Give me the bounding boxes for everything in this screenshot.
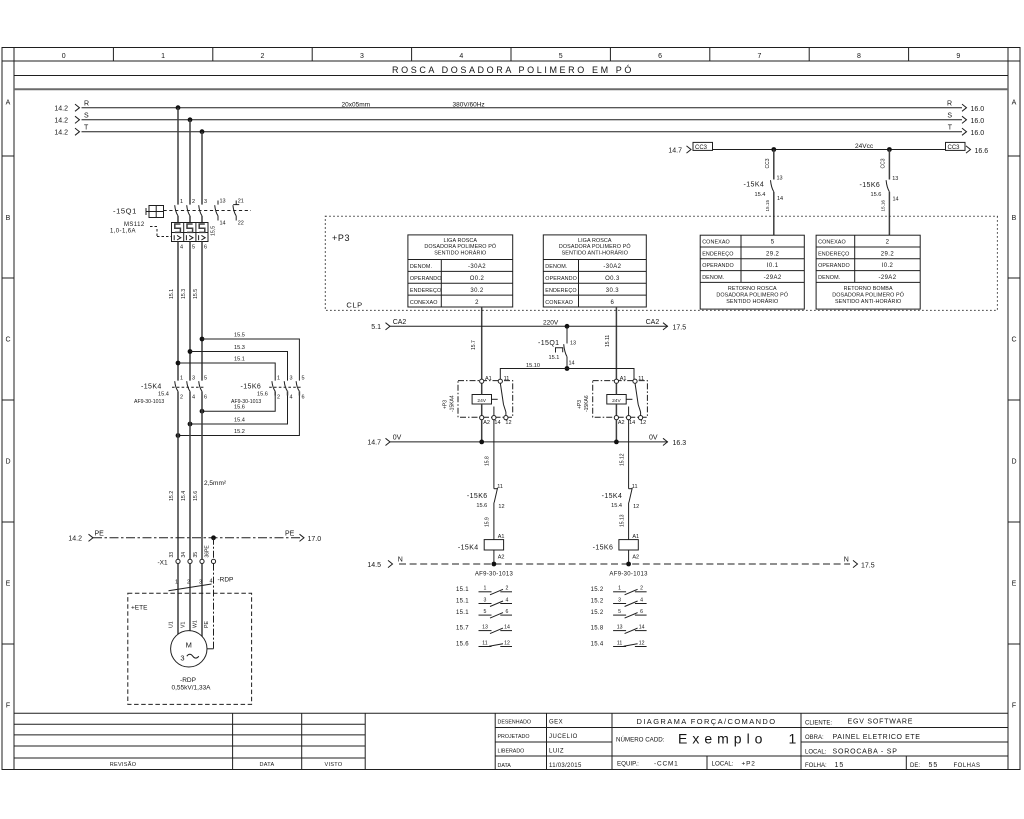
svg-text:30.3: 30.3 xyxy=(606,288,620,294)
svg-text:-15K6: -15K6 xyxy=(593,545,614,552)
svg-text:15.2: 15.2 xyxy=(591,587,604,593)
svg-text:C: C xyxy=(1011,337,1016,344)
svg-text:AF9-30-1013: AF9-30-1013 xyxy=(134,399,164,405)
svg-text:1: 1 xyxy=(277,376,280,382)
drawn/approved table xyxy=(495,720,612,769)
junction T phase xyxy=(200,129,205,134)
svg-text:12: 12 xyxy=(505,420,511,426)
svg-text:O0.3: O0.3 xyxy=(605,276,620,282)
interlock contact -15K6 11-12 xyxy=(467,484,505,540)
junction 0V -15KA6 xyxy=(614,440,619,445)
svg-text:13: 13 xyxy=(617,625,623,631)
svg-text:15.1: 15.1 xyxy=(456,587,469,593)
svg-text:17.5: 17.5 xyxy=(673,325,687,332)
svg-text:F: F xyxy=(1012,703,1016,710)
svg-text:U1: U1 xyxy=(169,621,175,628)
svg-text:1: 1 xyxy=(618,586,621,592)
svg-text:5: 5 xyxy=(771,240,775,246)
wire phase R xyxy=(54,101,984,113)
svg-text:380V/60Hz: 380V/60Hz xyxy=(453,102,485,109)
svg-text:15.6: 15.6 xyxy=(476,503,487,509)
svg-text:2: 2 xyxy=(640,586,643,592)
svg-text:14: 14 xyxy=(639,625,645,631)
aux contact -15Q1 21-22 xyxy=(233,199,244,227)
svg-text:15.6: 15.6 xyxy=(871,192,882,198)
svg-text:RETORNO BOMBA: RETORNO BOMBA xyxy=(844,286,893,292)
svg-text:15.4: 15.4 xyxy=(234,418,245,424)
drawing title cell xyxy=(612,717,801,768)
svg-text:-29A2: -29A2 xyxy=(764,275,782,281)
svg-text:6: 6 xyxy=(204,245,207,251)
wire 15.6 cross link from -15K6 xyxy=(202,396,275,412)
contactor coil -15K4 xyxy=(458,534,505,564)
svg-text:0: 0 xyxy=(62,53,66,60)
svg-text:1: 1 xyxy=(180,376,183,382)
svg-text:11/03/2015: 11/03/2015 xyxy=(549,763,582,769)
svg-text:DENOM.: DENOM. xyxy=(702,275,724,281)
svg-text:AF9-30-1013: AF9-30-1013 xyxy=(609,572,648,578)
svg-text:1: 1 xyxy=(180,199,183,205)
svg-text:14: 14 xyxy=(777,196,783,202)
svg-text:15.5: 15.5 xyxy=(193,289,199,299)
relay module -15KA4 xyxy=(443,376,513,426)
wire 15.3 cross link xyxy=(190,345,288,381)
svg-text:14: 14 xyxy=(220,221,226,227)
svg-text:LIGA ROSCA: LIGA ROSCA xyxy=(443,238,477,244)
svg-text:220V: 220V xyxy=(543,320,559,327)
svg-text:PROJETADO: PROJETADO xyxy=(498,734,530,740)
svg-text:22: 22 xyxy=(238,221,244,227)
svg-text:LIGA ROSCA: LIGA ROSCA xyxy=(578,238,612,244)
svg-text:A2: A2 xyxy=(498,555,505,561)
svg-text:13: 13 xyxy=(570,341,576,347)
svg-text:SENTIDO HORÁRIO: SENTIDO HORÁRIO xyxy=(726,298,778,305)
column ruler 0-9 xyxy=(62,48,961,62)
svg-text:EQUIP.:: EQUIP.: xyxy=(617,761,639,768)
svg-text:14: 14 xyxy=(629,420,635,426)
relay module -15KA6 xyxy=(577,376,647,426)
svg-text:12: 12 xyxy=(639,640,645,646)
wire 15.4 cross link from -15K6 xyxy=(190,396,288,425)
svg-text:N: N xyxy=(844,557,849,564)
svg-text:-15K6: -15K6 xyxy=(860,182,881,189)
svg-text:15: 15 xyxy=(835,762,845,769)
svg-text:B: B xyxy=(1012,215,1017,222)
svg-text:15.9: 15.9 xyxy=(485,517,491,527)
panel box +P3 CLP xyxy=(325,216,997,310)
svg-text:AF9-30-1013: AF9-30-1013 xyxy=(475,572,514,578)
svg-text:DIAGRAMA FORÇA/COMANDO: DIAGRAMA FORÇA/COMANDO xyxy=(637,717,777,726)
junction wire 15.1 to -15K6 xyxy=(176,361,181,366)
svg-text:GEX: GEX xyxy=(549,720,563,726)
svg-text:29.2: 29.2 xyxy=(766,251,780,257)
svg-text:2: 2 xyxy=(180,395,183,401)
wire motor lead PE xyxy=(207,564,214,649)
svg-text:LOCAL:: LOCAL: xyxy=(805,750,827,756)
svg-text:33: 33 xyxy=(169,552,175,558)
svg-text:+P3: +P3 xyxy=(332,233,350,243)
svg-text:13: 13 xyxy=(892,176,898,182)
contact mirror of -15K4 xyxy=(456,586,512,648)
wire 15.6 motor feeder W xyxy=(193,396,202,560)
svg-text:15.4: 15.4 xyxy=(181,491,187,501)
svg-text:NÚMERO CADD:: NÚMERO CADD: xyxy=(616,737,665,744)
svg-text:OPERANDO: OPERANDO xyxy=(545,276,577,282)
wire motor lead U1 xyxy=(177,564,179,635)
svg-text:0V: 0V xyxy=(393,435,402,442)
svg-text:15.3: 15.3 xyxy=(234,345,245,351)
svg-text:15.11: 15.11 xyxy=(605,335,611,347)
wire 15.4 motor feeder V xyxy=(181,396,190,560)
svg-text:-15K4: -15K4 xyxy=(744,182,765,189)
wire 15.5 cross link xyxy=(202,333,299,381)
svg-text:FOLHAS: FOLHAS xyxy=(954,763,981,769)
contactor -15K6 power contacts xyxy=(231,376,305,405)
svg-text:-15KA4: -15KA4 xyxy=(450,395,456,412)
svg-text:36PE: 36PE xyxy=(204,545,210,558)
motor rating label xyxy=(171,677,211,692)
svg-text:15.13: 15.13 xyxy=(619,514,625,527)
svg-text:-15KA6: -15KA6 xyxy=(584,395,590,412)
contactor -15K4 power contacts xyxy=(134,376,207,405)
svg-text:15.5: 15.5 xyxy=(234,333,245,339)
svg-text:5: 5 xyxy=(302,376,305,382)
svg-text:4: 4 xyxy=(210,579,213,585)
CLP output table -30A2 sentido anti-horario xyxy=(543,235,646,307)
svg-text:V1: V1 xyxy=(181,622,187,628)
wire net CC3 24Vcc xyxy=(668,142,988,154)
svg-text:9: 9 xyxy=(956,53,960,60)
motor-protective breaker -15Q1 xyxy=(110,199,251,235)
svg-text:12: 12 xyxy=(498,504,504,510)
svg-text:15.6: 15.6 xyxy=(234,405,245,411)
contactor coil -15K6 xyxy=(593,534,640,564)
wire net N xyxy=(367,557,874,570)
aux contact -15K4 13-14 (to CLP input) xyxy=(744,150,784,236)
svg-text:2: 2 xyxy=(886,240,890,246)
wire PE drop to motor xyxy=(213,538,215,560)
svg-text:CA2: CA2 xyxy=(393,319,407,326)
contact mirror of -15K6 xyxy=(591,586,647,648)
svg-text:CC3: CC3 xyxy=(880,158,886,168)
svg-text:12: 12 xyxy=(640,420,646,426)
svg-text:6: 6 xyxy=(204,395,207,401)
wire net CA2 220V xyxy=(371,319,686,332)
svg-text:-15Q1: -15Q1 xyxy=(113,207,137,216)
wire L1 drop to breaker xyxy=(177,108,179,205)
svg-text:5: 5 xyxy=(618,609,621,615)
svg-text:13: 13 xyxy=(482,625,488,631)
svg-text:1: 1 xyxy=(175,580,178,586)
svg-text:16.6: 16.6 xyxy=(975,148,989,155)
wire 15.3 segment L2 xyxy=(181,242,190,381)
svg-text:2: 2 xyxy=(506,586,509,592)
svg-text:S: S xyxy=(947,113,952,120)
svg-text:6: 6 xyxy=(658,53,662,60)
wire 15.12 from -15KA6 contact 14 xyxy=(619,420,628,489)
svg-text:0,55kV/1,33A: 0,55kV/1,33A xyxy=(171,685,211,692)
junction CC3 at -15K4 xyxy=(771,147,776,152)
svg-text:DENOM.: DENOM. xyxy=(818,275,840,281)
svg-text:ENDEREÇO: ENDEREÇO xyxy=(410,288,441,294)
svg-text:I0.1: I0.1 xyxy=(767,263,779,269)
svg-text:VISTO: VISTO xyxy=(325,762,343,768)
svg-text:14.2: 14.2 xyxy=(54,130,68,137)
svg-text:15.2: 15.2 xyxy=(591,599,604,605)
svg-text:R: R xyxy=(84,101,89,108)
junction S phase xyxy=(188,117,193,122)
aux contact -15Q1 13-14 in command xyxy=(538,326,576,368)
svg-text:15.2: 15.2 xyxy=(169,491,175,501)
svg-text:DESENHADO: DESENHADO xyxy=(498,720,532,726)
svg-text:-15K6: -15K6 xyxy=(467,493,488,500)
svg-text:-29A2: -29A2 xyxy=(878,275,896,281)
svg-text:E: E xyxy=(1012,581,1017,588)
svg-text:A2: A2 xyxy=(483,420,490,426)
svg-text:11: 11 xyxy=(504,376,510,382)
wire phase T xyxy=(54,125,984,137)
svg-text:+P3: +P3 xyxy=(443,400,449,409)
svg-text:-RDP: -RDP xyxy=(218,577,234,584)
junction CA2 to -15Q1 aux xyxy=(565,324,570,329)
motor -RDP M3~ xyxy=(171,631,207,667)
wire 15.5 segment L3 xyxy=(193,242,202,381)
svg-text:SENTIDO ANTI-HORÁRIO: SENTIDO ANTI-HORÁRIO xyxy=(562,250,628,257)
svg-text:15.1: 15.1 xyxy=(456,599,469,605)
svg-text:REVISÃO: REVISÃO xyxy=(110,761,137,768)
svg-text:6: 6 xyxy=(506,609,509,615)
svg-text:4: 4 xyxy=(506,597,509,603)
svg-text:21: 21 xyxy=(238,199,244,205)
row letters A-F xyxy=(2,100,1020,710)
svg-text:CC3: CC3 xyxy=(765,158,771,168)
svg-text:D: D xyxy=(5,459,10,466)
svg-text:A1: A1 xyxy=(620,376,627,382)
revision table xyxy=(14,724,365,768)
wire numbers U1 V1 W1 PE rotated xyxy=(169,620,211,628)
svg-text:DOSADORA POLIMERO PÓ: DOSADORA POLIMERO PÓ xyxy=(424,243,496,250)
svg-text:15.12: 15.12 xyxy=(619,453,625,466)
svg-text:DENOM.: DENOM. xyxy=(410,264,432,270)
svg-text:4: 4 xyxy=(192,395,195,401)
svg-text:+P3: +P3 xyxy=(577,400,583,409)
svg-text:A2: A2 xyxy=(632,555,639,561)
svg-text:5: 5 xyxy=(192,245,195,251)
svg-text:CONEXAO: CONEXAO xyxy=(702,240,730,246)
junction wire 15.2 on L1 xyxy=(176,433,181,438)
svg-text:12: 12 xyxy=(633,504,639,510)
svg-text:PE: PE xyxy=(285,531,295,538)
wire 15.1 cross link xyxy=(178,357,275,381)
svg-text:N: N xyxy=(398,557,403,564)
svg-text:2,5mm²: 2,5mm² xyxy=(204,480,227,487)
svg-text:11: 11 xyxy=(482,640,487,646)
svg-text:15.1: 15.1 xyxy=(169,289,175,299)
svg-text:DENOM.: DENOM. xyxy=(545,264,567,270)
svg-text:A2: A2 xyxy=(618,420,625,426)
svg-text:17.5: 17.5 xyxy=(861,562,875,569)
svg-text:24Vcc: 24Vcc xyxy=(855,143,874,150)
svg-text:34: 34 xyxy=(181,552,187,558)
svg-text:F: F xyxy=(6,703,10,710)
svg-text:PE: PE xyxy=(95,531,105,538)
svg-text:15.16: 15.16 xyxy=(880,200,885,212)
svg-text:15.10: 15.10 xyxy=(526,363,540,369)
svg-text:O0.2: O0.2 xyxy=(470,276,485,282)
svg-text:S: S xyxy=(84,113,89,120)
svg-text:DATA: DATA xyxy=(498,763,512,769)
svg-text:A: A xyxy=(6,100,11,107)
svg-text:5: 5 xyxy=(204,376,207,382)
wire 15.1 segment L1 xyxy=(169,242,178,381)
wire motor lead W1 xyxy=(201,564,203,637)
svg-text:4: 4 xyxy=(180,245,183,251)
svg-text:35: 35 xyxy=(193,552,199,558)
svg-text:14: 14 xyxy=(893,197,899,203)
svg-text:D: D xyxy=(1011,459,1016,466)
svg-text:ENDEREÇO: ENDEREÇO xyxy=(545,288,576,294)
svg-text:OPERANDO: OPERANDO xyxy=(702,263,734,269)
svg-text:14.7: 14.7 xyxy=(367,440,381,447)
svg-text:6: 6 xyxy=(611,300,615,306)
svg-text:14.5: 14.5 xyxy=(367,562,381,569)
svg-text:SENTIDO HORÁRIO: SENTIDO HORÁRIO xyxy=(434,250,486,257)
svg-text:RETORNO ROSCA: RETORNO ROSCA xyxy=(728,286,777,292)
wire 15.10 xyxy=(500,363,634,381)
wire motor lead V1 xyxy=(189,564,191,631)
svg-text:24V: 24V xyxy=(612,398,621,404)
svg-text:7: 7 xyxy=(758,53,762,60)
wire 15.2 motor feeder U xyxy=(169,396,178,560)
wire net 0V xyxy=(367,435,686,448)
svg-text:SOROCABA - SP: SOROCABA - SP xyxy=(833,749,898,756)
wire 15.2 cross link from -15K6 xyxy=(178,396,299,436)
junction wire 15.6 on L3 xyxy=(200,409,205,414)
svg-text:0V: 0V xyxy=(649,435,658,442)
svg-text:ENDEREÇO: ENDEREÇO xyxy=(702,251,733,257)
svg-text:16.3: 16.3 xyxy=(673,440,687,447)
svg-text:ROSCA DOSADORA POLIMERO EM PÓ: ROSCA DOSADORA POLIMERO EM PÓ xyxy=(392,65,634,75)
svg-text:13: 13 xyxy=(777,176,783,182)
svg-text:FOLHA:: FOLHA: xyxy=(805,763,827,769)
cable -RDP marker xyxy=(169,577,234,591)
wire L2 drop to breaker xyxy=(189,120,191,205)
svg-text:55: 55 xyxy=(929,762,939,769)
svg-text:PE: PE xyxy=(204,621,210,628)
svg-text:DOSADORA POLIMERO PÓ: DOSADORA POLIMERO PÓ xyxy=(716,292,788,299)
svg-text:15.4: 15.4 xyxy=(755,192,766,198)
svg-text:14: 14 xyxy=(569,361,575,367)
svg-text:2: 2 xyxy=(192,199,195,205)
wire phase S xyxy=(54,113,984,125)
svg-text:24V: 24V xyxy=(477,398,486,404)
svg-text:DE:: DE: xyxy=(910,763,920,769)
svg-text:4: 4 xyxy=(290,395,293,401)
wire A2 -15KA6 to 0V xyxy=(615,420,617,442)
junction N coil -15K4 xyxy=(492,562,497,567)
client info cells xyxy=(801,719,1008,769)
wire net PE xyxy=(68,531,321,544)
svg-text:CONEXAO: CONEXAO xyxy=(545,300,573,306)
svg-text:MS112: MS112 xyxy=(124,222,145,228)
svg-text:5: 5 xyxy=(559,53,563,60)
svg-text:SENTIDO ANTI-HORÁRIO: SENTIDO ANTI-HORÁRIO xyxy=(835,298,901,305)
svg-text:11: 11 xyxy=(617,640,622,646)
interlock contact -15K4 11-12 xyxy=(602,484,640,540)
svg-text:17.0: 17.0 xyxy=(308,536,322,543)
svg-text:2: 2 xyxy=(187,580,190,586)
svg-text:W1: W1 xyxy=(193,620,199,628)
svg-text:15.4: 15.4 xyxy=(158,392,169,398)
svg-text:16.0: 16.0 xyxy=(971,130,985,137)
svg-text:4: 4 xyxy=(459,53,463,60)
svg-text:15.6: 15.6 xyxy=(257,392,268,398)
svg-text:-X1: -X1 xyxy=(158,560,169,567)
svg-text:8: 8 xyxy=(857,53,861,60)
svg-text:+P2: +P2 xyxy=(742,761,756,768)
svg-text:CC3: CC3 xyxy=(948,145,961,151)
svg-text:-15K4: -15K4 xyxy=(458,545,479,552)
svg-text:CONEXAO: CONEXAO xyxy=(410,300,438,306)
title block frame xyxy=(14,713,1008,769)
svg-text:DATA: DATA xyxy=(259,762,274,768)
CLP output table -30A2 sentido horario xyxy=(408,235,513,307)
title band ROSCA DOSADORA POLIMERO EM PO xyxy=(14,65,1008,89)
junction wire 15.3 to -15K6 xyxy=(188,349,193,354)
junction N coil -15K6 xyxy=(626,562,631,567)
CLP input table -29A2 retorno anti-horario xyxy=(816,235,920,309)
svg-text:15.7: 15.7 xyxy=(471,340,477,350)
svg-text:11: 11 xyxy=(638,376,644,382)
svg-text:LUIZ: LUIZ xyxy=(549,749,564,755)
svg-text:1: 1 xyxy=(789,731,797,747)
svg-text:13: 13 xyxy=(220,199,226,205)
svg-text:20x05mm: 20x05mm xyxy=(342,102,371,109)
svg-text:-CCM1: -CCM1 xyxy=(654,761,679,768)
wire CLP output conexao 6 to relay -15KA6 xyxy=(615,307,617,379)
svg-text:-30A2: -30A2 xyxy=(603,264,621,270)
svg-text:15.4: 15.4 xyxy=(591,642,604,648)
svg-text:Exemplo: Exemplo xyxy=(678,731,767,747)
svg-text:15.8: 15.8 xyxy=(591,626,604,632)
svg-text:15.6: 15.6 xyxy=(193,491,199,501)
svg-text:-30A2: -30A2 xyxy=(468,264,486,270)
aux contact -15K6 13-14 (to CLP input) xyxy=(860,150,899,236)
svg-text:A1: A1 xyxy=(485,376,492,382)
svg-text:3: 3 xyxy=(290,376,293,382)
svg-text:29.2: 29.2 xyxy=(881,251,895,257)
svg-text:15.7: 15.7 xyxy=(456,626,469,632)
svg-text:12: 12 xyxy=(504,640,510,646)
svg-text:3: 3 xyxy=(618,597,621,603)
CLP input table -29A2 retorno horario xyxy=(700,235,804,309)
svg-text:OPERANDO: OPERANDO xyxy=(410,276,442,282)
svg-text:14: 14 xyxy=(494,420,500,426)
svg-text:14: 14 xyxy=(504,625,510,631)
wire L3 drop to breaker xyxy=(201,132,203,205)
svg-text:EGV SOFTWARE: EGV SOFTWARE xyxy=(848,719,914,726)
junction wire 15.5 to -15K6 xyxy=(200,337,205,342)
wire CLP output conexao 2 to relay -15KA4 xyxy=(481,307,483,379)
svg-text:-RDP: -RDP xyxy=(180,677,196,684)
svg-text:15.1: 15.1 xyxy=(234,357,245,363)
svg-text:1: 1 xyxy=(161,53,165,60)
svg-text:16.0: 16.0 xyxy=(971,118,985,125)
wire A2 -15KA4 to 0V xyxy=(481,420,483,442)
svg-text:15.4: 15.4 xyxy=(611,503,622,509)
thermal overload block of -15Q1 xyxy=(150,223,217,251)
svg-text:11: 11 xyxy=(632,484,638,490)
